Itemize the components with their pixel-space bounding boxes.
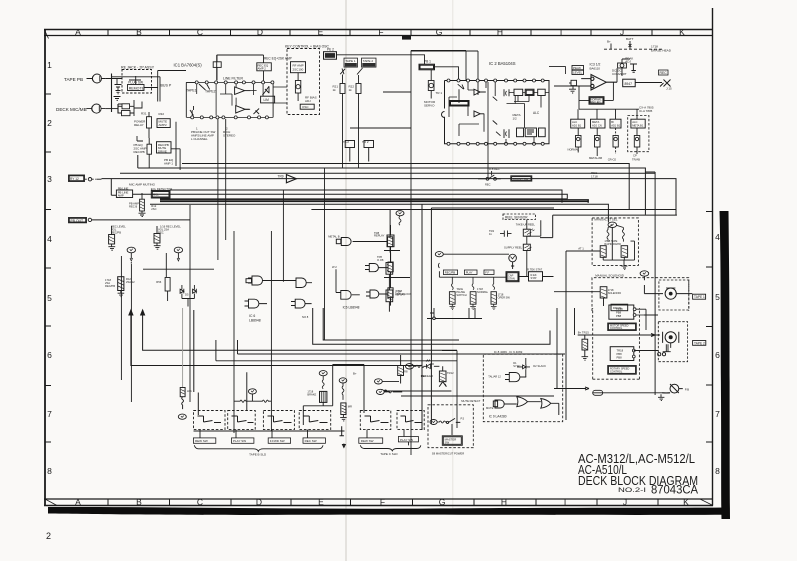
op-amp U3 [554, 75, 617, 91]
wire feed L3 [194, 310, 199, 415]
switch row 1 pins [186, 81, 274, 84]
box R TEK [529, 272, 543, 281]
svg-text:F: F [380, 497, 385, 507]
svg-text:8: 8 [47, 466, 52, 476]
svg-text:SOLENOID: SOLENOID [608, 291, 622, 295]
switch tape2 detect [357, 68, 363, 75]
dashed box master [428, 405, 473, 448]
label REC boxed [659, 70, 669, 75]
svg-text:IC 2 BA5104S: IC 2 BA5104S [489, 61, 516, 66]
wire squiggle row [234, 400, 271, 402]
transistor TR mid [439, 366, 446, 386]
svg-text:F: F [378, 27, 383, 37]
svg-text:REC EQ: REC EQ [591, 100, 601, 104]
svg-text:7: 7 [47, 409, 52, 419]
box BAL AMP [450, 101, 470, 107]
svg-text:MANUAL SOLENOID: MANUAL SOLENOID [595, 274, 625, 278]
wire bus9 [311, 209, 675, 211]
and-gate G8 [366, 290, 388, 298]
frame bottom double line [44, 498, 713, 500]
and-gate G10 [493, 400, 517, 408]
wire ic8 riser [525, 358, 527, 378]
lamp column x182 [182, 308, 184, 387]
svg-text:STAT: STAT [531, 276, 538, 280]
wire plug sw to BUS P [112, 71, 187, 102]
transistor box G6 out [388, 262, 393, 272]
svg-text:RE JACK - 2P ASSY: RE JACK - 2P ASSY [121, 66, 155, 70]
svg-text:8947: 8947 [625, 82, 633, 86]
svg-text:C: C [197, 497, 203, 507]
pins TR18b [632, 349, 635, 358]
resistor R17 top [213, 55, 221, 80]
ground G6 [108, 244, 115, 250]
svg-text:B+: B+ [353, 372, 357, 376]
connector ellipse 26 [376, 389, 384, 394]
svg-text:ADJ B1: ADJ B1 [611, 123, 621, 127]
svg-text:TAPE 1: TAPE 1 [694, 295, 705, 299]
ground RL1 [450, 304, 456, 309]
svg-text:REW SW: REW SW [361, 439, 374, 443]
dashed box tape B mech [658, 322, 687, 362]
svg-text:TR18: TR18 [617, 349, 624, 353]
wire feed L1 [131, 310, 422, 366]
svg-text:TAPE PB: TAPE PB [64, 77, 83, 82]
wire vol columns [121, 205, 190, 402]
coil L2 [617, 225, 625, 241]
resistor RA2 [621, 246, 628, 258]
switch tape1 detect [340, 69, 345, 75]
svg-text:1k: 1k [333, 88, 337, 92]
svg-text:1/2: 1/2 [513, 117, 518, 121]
svg-text:6: 6 [47, 350, 52, 360]
switch row 2 pins [186, 116, 273, 119]
svg-text:A: A [75, 497, 81, 507]
boxed label TAPE B [693, 341, 706, 346]
resistor RSOL [600, 287, 607, 306]
ink blob on top frame [402, 36, 411, 40]
LED D rec [426, 360, 439, 369]
wire bus7 thick pair [160, 200, 588, 203]
resistor R31 [147, 112, 152, 138]
svg-text:REMOTE: REMOTE [129, 87, 145, 91]
coil L1 [607, 225, 612, 242]
svg-text:A: A [75, 27, 81, 37]
box FG1 [514, 89, 523, 95]
pill connector CD [593, 390, 603, 395]
dashed box IC8 IC9 [483, 354, 562, 422]
op-amp A2 [236, 106, 250, 113]
svg-text:J: J [623, 497, 627, 507]
IC2 bottom pins [447, 142, 544, 145]
resistor RL2 [470, 277, 476, 304]
and-gate G4 [291, 299, 312, 308]
switch S1b lever [190, 106, 194, 116]
svg-text:TR 1: TR 1 [436, 91, 443, 95]
connector circle at mic remote [85, 178, 102, 181]
svg-text:SW: SW [445, 441, 450, 445]
grid letters top [75, 27, 685, 37]
node riser to IC1 [158, 71, 186, 102]
connector ellipse 17 [339, 378, 347, 383]
svg-text:TAL/AR 12: TAL/AR 12 [488, 375, 501, 379]
wire rec to jack [617, 68, 662, 82]
wire J1 top to IC1 [112, 77, 161, 102]
photo sensor PS1 [523, 229, 534, 236]
pins TR18 [633, 308, 646, 317]
or-gate G12 [541, 399, 559, 416]
coil squiggle rec led [414, 365, 426, 367]
svg-text:REEL SENSOR: REEL SENSOR [505, 215, 528, 219]
svg-text:K: K [683, 497, 689, 507]
op-amp A1 [235, 87, 251, 95]
ground G1 [114, 97, 121, 101]
svg-text:1k: 1k [349, 88, 353, 92]
svg-text:I: I [564, 497, 566, 507]
resistor R3 [118, 104, 130, 109]
wire bus1 [138, 155, 646, 215]
label box REC SW [303, 438, 325, 443]
svg-text:PB8: PB8 [616, 314, 622, 318]
svg-text:AMP 1: AMP 1 [164, 162, 173, 166]
svg-text:LP1: LP1 [187, 389, 192, 393]
svg-text:METAL/AB: METAL/AB [589, 156, 602, 160]
wire AT feed [566, 251, 600, 420]
box ECL DETECTOR [151, 191, 170, 199]
dashed box RE JACK ASSY [122, 70, 152, 94]
wire bus mid4 [238, 340, 566, 354]
wire sensors vertical [527, 220, 541, 277]
svg-text:CR-O2: CR-O2 [608, 158, 617, 162]
dashed box bias osc [287, 49, 320, 115]
svg-text:NO.2-I: NO.2-I [618, 487, 646, 494]
svg-text:ADJ CN: ADJ CN [592, 123, 602, 127]
coil 17 [342, 383, 344, 400]
motor M2 solenoid [655, 288, 692, 299]
svg-text:R32: R32 [159, 112, 165, 116]
svg-text:META B1: META B1 [632, 123, 644, 127]
label box PAUSE SW [398, 437, 418, 442]
label PEAK LEVEL boxed [572, 66, 584, 75]
resistor R lower mid [165, 278, 170, 302]
brace TAPE B SLD [194, 445, 323, 451]
svg-text:5: 5 [715, 292, 720, 302]
capstan marks [658, 343, 671, 356]
wire solenoid feed [554, 276, 655, 293]
svg-text:BATT: BATT [626, 37, 634, 41]
box REF1 [345, 141, 354, 162]
svg-text:2SA 12: 2SA 12 [126, 280, 135, 284]
and-gate G1 [248, 276, 296, 285]
box sol drive [611, 304, 628, 311]
wire reel rows [384, 251, 410, 278]
svg-text:I: I [560, 27, 562, 37]
svg-text:REC: REC [660, 71, 668, 75]
svg-text:MUTE DETECT: MUTE DETECT [461, 399, 480, 403]
motor M1 capstan sensor [509, 254, 517, 269]
dashed box metal select [628, 116, 649, 152]
diode pair D11 [517, 365, 530, 369]
resistor R rec led [398, 355, 404, 384]
svg-text:SWITCH: SWITCH [456, 293, 466, 297]
box ALC B4 [631, 119, 645, 128]
svg-text:STAN: STAN [508, 277, 515, 281]
svg-text:PB 1: PB 1 [424, 60, 431, 64]
svg-text:CONTROL: CONTROL [610, 327, 623, 330]
ground G7 [154, 243, 161, 249]
box ALC B1 [571, 119, 585, 128]
svg-text:NO 8: NO 8 [302, 315, 309, 319]
box REC DRIVE [623, 79, 636, 87]
svg-text:F.FWD SW: F.FWD SW [270, 439, 285, 443]
wire rtek [519, 276, 554, 278]
wire brake out [247, 365, 364, 426]
svg-text:J.15: J.15 [666, 87, 672, 91]
svg-text:D5: D5 [185, 293, 189, 297]
svg-text:B+ TR15: B+ TR15 [578, 331, 590, 335]
label TAPE2 SPECIAL [362, 58, 377, 67]
svg-text:LIM: LIM [264, 98, 270, 102]
box ALC2 [525, 128, 536, 137]
svg-text:MUTE: MUTE [486, 406, 494, 410]
scan shadow bar right [720, 211, 731, 519]
connector ellipse 18 [248, 389, 256, 401]
wire gate feed verticals [234, 168, 325, 433]
scan shadow bar bottom [48, 507, 725, 515]
wire IC1 internal mesh [192, 84, 287, 116]
switch rec sw [478, 144, 501, 180]
transistor right vol [154, 226, 160, 243]
svg-text:2SC100: 2SC100 [293, 67, 304, 71]
bottom ticks [108, 499, 658, 505]
wire bus3 [102, 179, 677, 216]
coil brake [322, 376, 324, 389]
svg-text:REC/PB: REC/PB [111, 231, 121, 235]
label count sw boxed [511, 176, 532, 181]
box NORMAL REC EQ [589, 97, 604, 105]
svg-text:RY 12: RY 12 [70, 177, 79, 181]
dashed box MANUAL ATSEL [592, 218, 638, 266]
brace TAPE C SLD [360, 445, 421, 451]
boxed label MIC REMOTE [69, 175, 85, 182]
amp triangle on bus3 [286, 175, 296, 183]
squiggle master [437, 421, 447, 423]
wire right risers [612, 172, 655, 395]
svg-text:OSC: OSC [302, 105, 309, 109]
svg-text:H: H [497, 27, 503, 37]
dashed inner box motor sol [659, 280, 689, 310]
svg-text:G: G [436, 27, 443, 37]
svg-text:DRIVE: DRIVE [158, 149, 167, 153]
arrow head L1 [129, 310, 133, 315]
svg-text:PB8: PB8 [617, 356, 623, 360]
svg-text:S8 MASTER/CUT POWER: S8 MASTER/CUT POWER [432, 452, 464, 456]
svg-text:METAL B: METAL B [328, 235, 339, 239]
right ticks [706, 212, 713, 443]
capacitor col3 [613, 128, 618, 154]
svg-text:D-8 REC: D-8 REC [489, 167, 500, 171]
IC1 outline [186, 55, 273, 117]
svg-text:G: G [439, 497, 446, 507]
ground RL3 [491, 304, 497, 309]
svg-text:INTERLOCK: INTERLOCK [396, 292, 412, 296]
connector J2 DECK MIC/MB jack [86, 104, 105, 113]
solenoid 1718 BRAKE [320, 391, 327, 402]
ground MR [340, 415, 346, 421]
svg-text:MANUAL AT SEL: MANUAL AT SEL [594, 218, 617, 222]
svg-text:PB OUT: PB OUT [71, 219, 84, 223]
switch box B5 [360, 411, 391, 430]
svg-text:7: 7 [715, 409, 720, 419]
frame right line [712, 8, 714, 506]
and-gate G3 [296, 278, 312, 288]
svg-text:ECL: ECL [153, 193, 159, 197]
svg-text:RELAY: RELAY [134, 123, 144, 127]
svg-text:2SC: 2SC [151, 207, 156, 211]
svg-text:CP: CP [633, 154, 637, 158]
svg-text:3: 3 [47, 174, 52, 184]
wire under group A [194, 430, 345, 432]
capacitor C6 in IC2 [504, 129, 509, 138]
svg-text:REC B: REC B [129, 205, 137, 209]
connector ellipse lamp [178, 414, 186, 419]
resistor RS2 [386, 263, 393, 275]
svg-text:B: B [136, 497, 142, 507]
switch box B3 [263, 411, 294, 430]
connector ellipse 19 [319, 371, 327, 376]
battery circle B2 [174, 247, 182, 261]
svg-text:TR9: TR9 [278, 175, 284, 179]
svg-text:IC1 BA7604(S): IC1 BA7604(S) [174, 63, 203, 68]
node bus vertical [112, 74, 123, 114]
top ticks [108, 30, 652, 36]
wire bus2 [120, 172, 655, 174]
connector PB OUT [88, 218, 91, 221]
resistor RS3 [386, 290, 393, 302]
box REC/PB MUTE DRIVE [157, 142, 172, 153]
resistor RL3 [491, 277, 496, 304]
ground G4 [630, 64, 637, 72]
svg-text:REW SW: REW SW [195, 439, 208, 443]
svg-text:K: K [679, 27, 685, 37]
svg-text:PLAY SW: PLAY SW [400, 438, 413, 442]
faint page fold line [345, 0, 347, 561]
wire bus10 [540, 215, 677, 238]
transistor R amp [140, 193, 145, 211]
capacitor C1 [115, 79, 122, 94]
ground atsel [621, 266, 627, 270]
svg-text:TAPE 1: TAPE 1 [345, 59, 356, 63]
svg-text:1: 1 [47, 60, 52, 70]
wire lower-left joins [143, 269, 214, 306]
wire lower b feed [554, 387, 670, 393]
pause bar [340, 426, 344, 436]
resistor R21 [340, 75, 345, 169]
resistor RA1 [600, 246, 606, 258]
box LIMITER [261, 96, 275, 103]
and-gate G6 [365, 264, 388, 272]
svg-text:AMP2: AMP2 [159, 123, 168, 127]
wire bus6 [160, 198, 567, 200]
label PB/LINE annotation [191, 127, 236, 142]
grid numbers right [715, 232, 720, 476]
svg-text:IC 9 LA4280: IC 9 LA4280 [489, 415, 507, 419]
svg-text:TAPE2: TAPE2 [205, 90, 216, 94]
svg-text:H: H [501, 497, 507, 507]
boxed label ROTARY SPEED CONTROL [608, 366, 637, 375]
switch box PLUG SW [128, 76, 145, 91]
switch S1a lever [199, 84, 210, 90]
switch master [446, 418, 460, 423]
ground RB [582, 357, 589, 361]
wire META to PB1 [337, 55, 459, 79]
wire atsel bottom [603, 241, 634, 265]
switch box B4 [299, 411, 331, 430]
label box FF SW [268, 438, 290, 443]
svg-text:PB8: PB8 [617, 352, 623, 356]
squiggle 26 [384, 391, 402, 393]
box ALC1 [517, 128, 524, 137]
box OSC [300, 104, 314, 109]
resistor lamp [180, 388, 185, 410]
svg-text:87043CA: 87043CA [651, 483, 699, 497]
svg-text:PEAK: PEAK [573, 66, 581, 70]
capacitor sensor1 [500, 231, 512, 237]
svg-text:NORMAL: NORMAL [477, 290, 489, 294]
svg-text:5: 5 [47, 293, 52, 303]
coil below connector [399, 216, 401, 225]
battery circle B1 [127, 247, 135, 264]
svg-text:6: 6 [715, 350, 720, 360]
or-gate G11 [517, 397, 541, 407]
box ALC B3 [610, 119, 621, 128]
svg-text:DECK MIC/MB: DECK MIC/MB [56, 107, 87, 112]
wire pb out long [92, 219, 190, 221]
wire feed to IC2 [350, 51, 478, 456]
switch box B1 [194, 411, 226, 430]
resistor MR [341, 403, 346, 415]
svg-text:B: B [136, 27, 142, 37]
wire bus4 [170, 190, 562, 203]
svg-text:STEREO: STEREO [223, 134, 236, 138]
resistor R22 [356, 75, 361, 169]
label box REW SW [193, 438, 215, 443]
bus alc row [578, 109, 639, 119]
wire bus0 [182, 164, 629, 210]
svg-text:ADJ B1: ADJ B1 [572, 123, 582, 127]
transistor Q2 inside IC1 [254, 109, 260, 115]
svg-text:MIC AMP MUTING: MIC AMP MUTING [129, 183, 156, 187]
circle PB pulley [662, 384, 683, 393]
boxed label TAPE A [693, 294, 706, 299]
svg-text:REC/PB: REC/PB [445, 271, 456, 275]
wire feed L2 [143, 310, 457, 350]
svg-text:PB8: PB8 [616, 310, 622, 314]
wire bus8 [150, 204, 608, 222]
grid letters bottom [75, 497, 689, 507]
ground G8 [118, 291, 125, 297]
svg-text:COUNT SW: COUNT SW [513, 177, 529, 181]
wire J1 to bus [106, 78, 122, 80]
wire J2 to bus [105, 108, 118, 110]
svg-text:ECL DETECTOR: ECL DETECTOR [151, 187, 172, 191]
wire motor links [634, 309, 659, 350]
wire row under labels [438, 263, 506, 277]
svg-text:BUS P: BUS P [161, 84, 172, 88]
resistor R33 [147, 138, 152, 168]
transistor box TR8 [388, 237, 393, 247]
box RF AMP [291, 62, 306, 73]
variable resistor VR2 [428, 70, 434, 99]
